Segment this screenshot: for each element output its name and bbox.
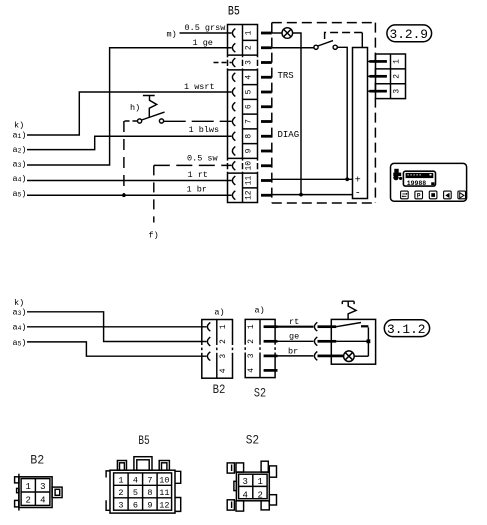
svg-text:1 blws: 1 blws	[189, 125, 220, 135]
wire pin 1 to lamp	[272, 32, 282, 34]
contact ge	[314, 337, 317, 346]
wire down to lamp	[367, 327, 369, 356]
wire f) dashed drop	[153, 165, 155, 222]
reference oval 3.1.2	[384, 320, 429, 337]
switch h) actuator linkage	[143, 96, 157, 118]
junction dot switch/plus bus	[345, 177, 349, 181]
display module icon	[391, 163, 467, 201]
svg-text:rt: rt	[289, 317, 299, 327]
connector B5 contact-column dividers around pins 3 and 10	[228, 55, 243, 173]
svg-text:1: 1	[257, 477, 262, 487]
connector face view S2 body	[236, 472, 269, 501]
lamp in switch unit	[344, 351, 355, 362]
connector face view B5 body	[110, 470, 175, 513]
svg-text:2: 2	[244, 45, 253, 50]
svg-text:S2: S2	[254, 386, 266, 401]
wire a5 to pin 12 (1 br)	[27, 194, 232, 196]
svg-text:5: 5	[133, 488, 138, 498]
wire lamp right	[354, 355, 368, 357]
svg-text:3: 3	[40, 482, 45, 492]
svg-text:1: 1	[244, 30, 253, 35]
svg-text:1 br: 1 br	[187, 184, 207, 194]
wire a1 to pin 5 (1 wsrt)	[27, 92, 232, 135]
switch h) contacts and lever	[138, 119, 142, 123]
wire a4 to B2 pin 1	[27, 326, 207, 328]
switch unit right contact bar	[361, 325, 368, 327]
svg-text:1: 1	[247, 324, 256, 329]
svg-text:2: 2	[118, 488, 123, 498]
svg-text:-: -	[355, 189, 361, 200]
connector B2 (mid) female contacts pins 1-3	[207, 322, 210, 360]
connector B2 (mid) rotated pin numbers	[219, 324, 228, 373]
wire ge S2 pin2 to switch unit	[276, 340, 314, 342]
lamp in control unit	[282, 28, 293, 39]
svg-text:3: 3	[219, 354, 228, 359]
svg-text:7: 7	[244, 119, 253, 124]
wire a3 to pin 2 (1 ge)	[27, 48, 232, 165]
svg-text:10: 10	[244, 161, 253, 171]
connector face view B5 pin numbers	[118, 476, 169, 511]
svg-text:P: P	[417, 192, 421, 199]
svg-text:1 wsrt: 1 wsrt	[184, 82, 215, 92]
switch unit box	[331, 319, 375, 364]
svg-text:4: 4	[244, 75, 253, 80]
svg-text:a): a)	[255, 306, 265, 316]
svg-text:h): h)	[130, 103, 140, 113]
svg-text:1: 1	[393, 59, 402, 64]
svg-text:2: 2	[247, 339, 256, 344]
wire rt S2 pin1 to switch unit	[276, 326, 314, 328]
svg-text:11: 11	[159, 488, 169, 498]
dashed linkage to battery top	[325, 33, 363, 40]
svg-text:11: 11	[244, 176, 253, 186]
svg-text:DIAG: DIAG	[278, 130, 300, 140]
svg-text:10: 10	[159, 476, 169, 486]
connector face view S2 pin numbers	[242, 477, 262, 500]
svg-text:3: 3	[393, 89, 402, 94]
connector face view B2 body	[19, 477, 52, 508]
internal connector wires from battery	[368, 61, 372, 91]
contact rt	[314, 322, 317, 331]
connector face view B2 left tabs	[15, 477, 19, 483]
connector S2 (mid) rotated pin numbers	[247, 324, 256, 373]
connector face view B5 top tabs	[134, 457, 152, 471]
reference oval 3.2.9	[387, 25, 432, 42]
svg-text:2: 2	[393, 74, 402, 79]
wire a4 to pin 11 (1 rt)	[27, 180, 232, 182]
svg-text:2: 2	[219, 339, 228, 344]
svg-text:ge: ge	[289, 332, 299, 342]
switch in control unit	[272, 47, 314, 49]
wire a2 to pin 8 (1 blws)	[27, 136, 232, 149]
svg-text:2: 2	[257, 490, 262, 500]
svg-text:0.5 sw: 0.5 sw	[187, 154, 219, 164]
wire br S2 pin3 to switch unit	[276, 355, 314, 357]
connector B5 number-column row dividers	[243, 40, 258, 188]
display module LCD	[403, 171, 435, 186]
svg-text:br: br	[288, 346, 298, 356]
wire a3 to B2 pin 2	[27, 312, 207, 342]
contact br	[314, 352, 317, 361]
svg-text:7: 7	[147, 476, 152, 486]
junction dot lamp/minus bus	[299, 193, 303, 197]
connector face view B5 side brackets	[106, 471, 181, 512]
display module buttons	[401, 191, 466, 199]
display module tractor pictogram	[393, 169, 402, 181]
svg-text:B2: B2	[213, 382, 226, 397]
button symbols	[402, 194, 406, 196]
internal connector (3-pin) body	[376, 54, 406, 99]
svg-text:S2: S2	[246, 433, 260, 448]
svg-text:3.2.9: 3.2.9	[390, 27, 429, 42]
svg-text:1 rt: 1 rt	[188, 170, 208, 180]
connector B5 body	[228, 25, 258, 203]
wire stub pin 3 (dashed)	[214, 62, 232, 64]
svg-text:f): f)	[149, 231, 159, 241]
junction dot on a5 wire	[122, 193, 126, 197]
connector face view B2 left rail	[18, 474, 20, 511]
control unit dashed outline	[272, 23, 376, 203]
wire switch to bus (plus)	[337, 47, 347, 179]
svg-text:4: 4	[219, 368, 228, 373]
connector face view B2 pin numbers	[25, 482, 45, 505]
wire switch h) right contact to pin 7 (dashed)	[164, 120, 232, 122]
svg-text:3: 3	[118, 501, 123, 511]
svg-text:B5: B5	[138, 433, 150, 448]
svg-text:4: 4	[242, 490, 247, 500]
wire ge inside unit	[336, 340, 368, 342]
battery element	[353, 48, 368, 199]
connector face view B2 latch	[52, 487, 62, 498]
svg-text:0.5 grsw: 0.5 grsw	[185, 23, 227, 33]
svg-text:3: 3	[242, 477, 247, 487]
junction square on ge	[367, 339, 371, 343]
wire 0.5 sw to pin 10 (dashed) with f) branch	[154, 164, 232, 166]
svg-text:3: 3	[247, 353, 256, 358]
connector B5 female contacts pins 1-12	[232, 29, 235, 200]
svg-text:1: 1	[25, 482, 30, 492]
svg-text:1 ge: 1 ge	[193, 38, 213, 48]
internal connector thick stubs	[369, 60, 387, 92]
svg-text:TRS: TRS	[278, 71, 294, 81]
svg-text:1: 1	[219, 324, 228, 329]
connector B5 rotated pin numbers	[244, 30, 253, 200]
wire lamp to bus (minus)	[293, 33, 301, 195]
svg-text:4: 4	[40, 495, 45, 505]
svg-text:12: 12	[244, 190, 253, 200]
connector B5 thick pin stubs into control unit	[261, 32, 272, 197]
svg-text:4: 4	[133, 476, 138, 486]
svg-text:3: 3	[244, 60, 253, 65]
wire switch h) left contact down to a5 wire (dashed)	[124, 120, 138, 122]
svg-text:8: 8	[244, 134, 253, 139]
connector face view B5 grid	[114, 473, 172, 510]
connector face view S2 corner tabs	[227, 463, 234, 473]
svg-text:a): a)	[214, 308, 224, 318]
svg-text:m): m)	[167, 30, 177, 40]
connector S2 (mid) thick pin stubs	[264, 325, 278, 371]
connector S2 (mid) body	[245, 319, 275, 377]
svg-text:12: 12	[159, 501, 169, 511]
svg-text:4: 4	[247, 368, 256, 373]
internal connector rotated pin numbers	[393, 59, 402, 94]
svg-text:k): k)	[14, 298, 24, 308]
svg-text:6: 6	[133, 501, 138, 511]
svg-text:3.1.2: 3.1.2	[387, 322, 426, 337]
bus wire pin 12 to battery minus	[272, 194, 353, 196]
switch unit actuator linkage	[342, 301, 356, 320]
svg-text:19988: 19988	[407, 180, 427, 187]
wire a5 to B2 pin 3	[27, 342, 207, 356]
svg-text:6: 6	[244, 104, 253, 109]
svg-text:8: 8	[147, 488, 152, 498]
svg-text:2: 2	[25, 495, 30, 505]
svg-text:5: 5	[244, 89, 253, 94]
svg-text:+: +	[355, 176, 361, 187]
svg-text:B2: B2	[30, 453, 44, 468]
dashed edge effect rows 3 and 10	[226, 57, 258, 171]
svg-text:k): k)	[14, 120, 24, 130]
svg-text:B5: B5	[228, 4, 240, 19]
svg-text:9: 9	[244, 148, 253, 153]
switch unit lever	[336, 323, 361, 327]
svg-text:1: 1	[118, 476, 123, 486]
connector B2 (mid) body	[202, 320, 233, 379]
svg-text:9: 9	[147, 501, 152, 511]
bus wire pin 11 to battery plus	[272, 178, 353, 180]
